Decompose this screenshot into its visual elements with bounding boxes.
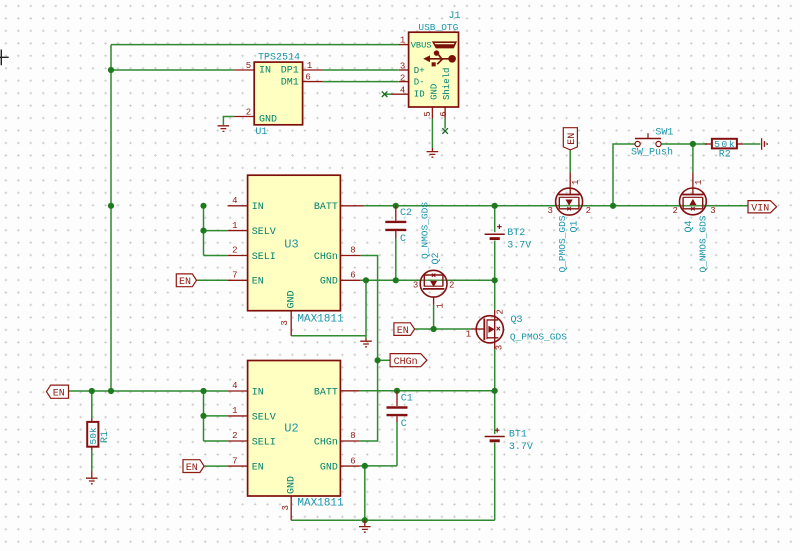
svg-text:2: 2 xyxy=(673,206,678,216)
svg-text:7: 7 xyxy=(232,456,237,466)
svg-text:1: 1 xyxy=(232,406,237,416)
junction SW branch xyxy=(610,203,616,209)
wire U2 SELV/SELI branch xyxy=(204,391,228,441)
wire chord through Q2 xyxy=(420,279,446,281)
wire EN label to U3 pin7 xyxy=(197,279,228,281)
wire chord through Q1 xyxy=(556,205,583,207)
pin U2-8 CHGn xyxy=(340,440,359,442)
IC U3 MAX1811 body xyxy=(248,175,341,311)
wire USB Shield pin down xyxy=(444,119,446,129)
svg-text:D-: D- xyxy=(414,78,425,88)
svg-text:1: 1 xyxy=(694,180,704,185)
svg-text:Q_PMOS_GDS: Q_PMOS_GDS xyxy=(557,215,568,272)
junction C1 top xyxy=(394,388,400,394)
wire U3 GND row left xyxy=(360,279,420,281)
wire DM1 to D- xyxy=(323,81,399,83)
ground below U1 xyxy=(218,126,230,132)
wire left EN row xyxy=(69,390,228,392)
junction Q4 gate / R2 xyxy=(690,141,696,147)
pin U3-8 CHGn xyxy=(340,255,360,257)
pin C1 bottom xyxy=(396,416,398,422)
wire USB GND pin down xyxy=(431,119,433,149)
wire U3 pin3 to ground branch xyxy=(291,335,366,337)
global label CHGn xyxy=(390,354,427,367)
svg-text:GND: GND xyxy=(320,277,338,288)
pin J1-5 GND xyxy=(431,107,433,119)
svg-text:8: 8 xyxy=(350,431,355,441)
pin R1 top xyxy=(91,419,93,422)
pin R2 right xyxy=(737,143,743,145)
global label EN (flag above Q1, vertical) xyxy=(563,128,577,150)
svg-text:CHGn: CHGn xyxy=(314,437,338,448)
junction BT2 top xyxy=(492,203,498,209)
wire BT2 top xyxy=(494,206,496,232)
svg-text:VBUS: VBUS xyxy=(411,41,432,51)
junction BT1 top / Q3 drain xyxy=(492,388,498,394)
pin U2-2 SELI xyxy=(228,440,248,442)
svg-text:SELI: SELI xyxy=(252,437,276,448)
svg-text:EN: EN xyxy=(186,463,198,474)
junction C1 bottom branch xyxy=(362,463,368,469)
junction C2 bottom xyxy=(393,277,399,283)
pin U3-2 SELI xyxy=(228,255,248,257)
svg-text:C2: C2 xyxy=(400,208,412,219)
svg-text:DP1: DP1 xyxy=(281,66,299,77)
svg-text:D+: D+ xyxy=(414,66,425,76)
junction U2 SELV row xyxy=(200,413,206,419)
pin U3-7 EN xyxy=(228,279,248,281)
pin Q4 gate xyxy=(692,173,694,195)
pin Q2 gate xyxy=(433,297,435,305)
svg-text:8: 8 xyxy=(350,246,355,256)
wire Q4 gate from SW node xyxy=(692,144,694,173)
battery BT2 xyxy=(485,224,505,238)
pin U1-6 DM1 xyxy=(303,81,323,83)
pin Q1 gate xyxy=(569,173,571,195)
svg-text:Q2: Q2 xyxy=(431,252,442,264)
resistor R2 xyxy=(712,139,737,149)
pin R1 bottom xyxy=(91,447,93,450)
svg-text:1: 1 xyxy=(571,180,581,185)
svg-text:EN: EN xyxy=(567,133,578,145)
svg-text:3: 3 xyxy=(495,345,505,350)
transistor Q2 Q_NMOS_GDS xyxy=(420,270,447,297)
resistor R1 xyxy=(87,422,98,447)
svg-text:2: 2 xyxy=(495,309,505,314)
svg-text:1: 1 xyxy=(307,61,312,71)
transistor Q1 Q_PMOS_GDS xyxy=(556,188,583,215)
wire U2 BATT rail xyxy=(359,390,494,392)
pin U2-6 GND xyxy=(340,465,359,467)
svg-text:BT1: BT1 xyxy=(509,430,527,441)
svg-text:SELV: SELV xyxy=(252,412,276,423)
svg-text:C: C xyxy=(400,234,406,245)
svg-text:VIN: VIN xyxy=(751,203,769,214)
svg-text:GND: GND xyxy=(287,476,298,494)
wire bottom GND rail xyxy=(291,519,495,521)
svg-text:Q3: Q3 xyxy=(511,315,523,326)
pin U3-4 IN xyxy=(228,205,248,207)
svg-text:ID: ID xyxy=(414,90,425,100)
pin Q3 drain bottom xyxy=(494,338,496,349)
global label EN (Q2/Q3 gate row) xyxy=(394,323,415,336)
svg-text:3: 3 xyxy=(548,206,553,216)
junction at U1 IN row xyxy=(108,67,114,73)
svg-text:3: 3 xyxy=(710,206,715,216)
svg-text:3: 3 xyxy=(400,62,405,72)
pin U1-2 GND xyxy=(234,116,254,118)
svg-text:GND: GND xyxy=(287,290,298,308)
svg-text:BT2: BT2 xyxy=(507,228,525,239)
svg-text:2: 2 xyxy=(449,281,454,291)
wire DP1 to D+ xyxy=(323,69,399,71)
svg-text:EN: EN xyxy=(252,463,264,474)
junction C2 top xyxy=(393,203,399,209)
svg-text:Q1: Q1 xyxy=(570,220,581,232)
capacitor C1 xyxy=(387,408,408,416)
junction left EN row main xyxy=(108,388,114,394)
svg-text:5: 5 xyxy=(423,111,433,116)
wire Q2 right to BT2 node xyxy=(447,279,495,281)
svg-text:EN: EN xyxy=(397,326,409,337)
pin J1-4 ID xyxy=(391,93,409,95)
wire Q1 to Q4 xyxy=(583,205,680,207)
svg-text:2: 2 xyxy=(246,107,251,117)
wire SW1 to R2 xyxy=(661,143,707,145)
ground below R1 xyxy=(86,471,98,484)
wire BT2 bottom xyxy=(494,241,496,281)
wire C2 bottom xyxy=(395,238,397,280)
svg-text:1: 1 xyxy=(232,221,237,231)
junction at U3 IN row xyxy=(108,203,114,209)
svg-text:SELV: SELV xyxy=(252,227,276,238)
wire BT1 top xyxy=(494,391,496,434)
wire left vertical main xyxy=(110,45,112,391)
svg-text:6: 6 xyxy=(439,111,449,116)
global label VIN xyxy=(748,201,777,213)
wire chord through Q4 xyxy=(680,205,706,207)
pin U2-1 SELV xyxy=(228,415,248,417)
junction U3 gnd branch xyxy=(363,277,369,283)
pin J1-2 D- xyxy=(399,81,409,83)
global label EN (U2 pin7) xyxy=(183,460,204,473)
svg-text:R1: R1 xyxy=(100,431,111,443)
wire U1 GND to ground xyxy=(223,117,234,126)
ground below U3 xyxy=(360,339,372,347)
wire BT1 bottom xyxy=(494,443,496,521)
svg-text:SW_Push: SW_Push xyxy=(631,147,673,159)
svg-text:3.7V: 3.7V xyxy=(509,442,533,453)
pin U1-5 IN xyxy=(234,69,254,71)
switch SW1 xyxy=(635,133,661,146)
ground right of R2 (rotated) xyxy=(762,138,768,150)
wire R1 bottom to ground xyxy=(91,450,93,471)
svg-text:Q_PMOS_GDS: Q_PMOS_GDS xyxy=(510,331,567,342)
wire Q4 to VIN xyxy=(706,205,748,207)
svg-text:3: 3 xyxy=(413,281,418,291)
junction Q2 gate / EN row xyxy=(431,326,437,332)
svg-text:DM1: DM1 xyxy=(281,77,299,88)
junction BT2 bottom / Q3 xyxy=(492,277,498,283)
svg-text:U2: U2 xyxy=(284,422,298,436)
pin J1-1 VBUS xyxy=(399,44,409,46)
svg-text:J1: J1 xyxy=(449,11,461,22)
svg-text:2: 2 xyxy=(400,73,405,83)
junction U3 SELV branch top xyxy=(200,203,206,209)
svg-text:3: 3 xyxy=(281,505,291,510)
global label EN (far left) xyxy=(47,385,69,398)
battery BT1 xyxy=(485,428,505,441)
wire CHGn net from U3 pin8 xyxy=(359,256,377,442)
svg-text:BATT: BATT xyxy=(314,202,338,213)
pin U2-7 EN xyxy=(228,465,248,467)
svg-text:3.7V: 3.7V xyxy=(507,241,531,252)
svg-text:5: 5 xyxy=(246,61,251,71)
svg-text:CHGn: CHGn xyxy=(394,357,418,368)
svg-text:4: 4 xyxy=(400,86,405,96)
svg-text:EN: EN xyxy=(252,277,264,288)
wire C1 bottom xyxy=(396,422,398,466)
junction bottom rail gnd xyxy=(362,517,368,523)
pin U1-1 DP1 xyxy=(303,69,323,71)
ground below U2 xyxy=(359,520,371,532)
svg-text:BATT: BATT xyxy=(314,387,338,398)
svg-text:IN: IN xyxy=(259,66,271,77)
svg-text:4: 4 xyxy=(232,196,237,206)
pin U3-3 GND bottom xyxy=(290,311,292,336)
wire Q3 drain down to U2 BATT rail xyxy=(494,349,496,391)
global label EN (U3 pin7) xyxy=(176,274,196,287)
IC U2 MAX1811 body xyxy=(248,361,341,497)
svg-text:50k: 50k xyxy=(88,427,99,444)
wire Q2 gate down xyxy=(433,305,435,330)
transistor Q3 Q_PMOS_GDS xyxy=(476,316,503,343)
junction R1 xyxy=(89,388,95,394)
svg-text:1: 1 xyxy=(466,330,471,340)
pin J1-6 Shield xyxy=(444,107,446,119)
svg-text:U1: U1 xyxy=(255,127,267,138)
wire ID stub to no-connect xyxy=(386,93,392,95)
wire U2 ground branch xyxy=(364,466,366,520)
wire U3 ground branch xyxy=(365,280,367,338)
pin U2-3 GND bottom xyxy=(290,496,292,520)
svg-text:2: 2 xyxy=(232,246,237,256)
USB trident icon xyxy=(423,51,455,66)
wire EN flag to Q1 gate xyxy=(569,150,571,173)
svg-text:USB_OTG: USB_OTG xyxy=(418,22,458,33)
wire R2 to ground right xyxy=(743,143,760,145)
svg-text:EN: EN xyxy=(53,388,65,399)
svg-text:6: 6 xyxy=(350,456,355,466)
svg-text:GND: GND xyxy=(320,463,338,474)
svg-text:SELI: SELI xyxy=(252,252,276,263)
wire branch up to SW1 xyxy=(613,144,635,206)
junction U2 SELV branch top xyxy=(200,388,206,394)
no-connect X on J1 ID pin xyxy=(382,91,388,97)
pin R2 left xyxy=(705,143,712,145)
svg-text:7: 7 xyxy=(232,271,237,281)
wire BATT rail U3 to Q1 xyxy=(363,205,556,207)
USB connector icon (trapezoid) xyxy=(432,41,457,48)
transistor Q4 Q_NMOS_GDS xyxy=(680,188,707,215)
connector J1 USB_OTG body xyxy=(409,32,459,107)
junction CHGn label xyxy=(375,357,381,363)
svg-text:3: 3 xyxy=(280,320,290,325)
wire U3 SELV/SELI branch xyxy=(204,206,228,256)
sheet origin cross marker xyxy=(0,50,9,66)
svg-text:C: C xyxy=(401,419,407,430)
svg-text:2: 2 xyxy=(232,431,237,441)
pin J1-3 D+ xyxy=(399,69,409,71)
svg-text:Shield: Shield xyxy=(442,68,452,100)
capacitor C2 xyxy=(385,222,406,230)
junction U3 SELV row xyxy=(200,228,206,234)
svg-text:GND: GND xyxy=(259,114,277,125)
svg-text:U3: U3 xyxy=(284,237,298,251)
pin U2-4 IN xyxy=(228,390,248,392)
wire EN label to U2 pin7 xyxy=(204,465,228,467)
svg-text:GND: GND xyxy=(429,84,439,100)
IC U1 TPS2514 body xyxy=(254,62,302,125)
ground below J1 xyxy=(427,148,439,157)
svg-text:Q4: Q4 xyxy=(684,220,695,232)
pin U3-1 SELV xyxy=(228,230,248,232)
svg-text:TPS2514: TPS2514 xyxy=(258,52,300,63)
pin C2 top xyxy=(395,206,397,221)
svg-text:CHGn: CHGn xyxy=(314,252,338,263)
svg-text:EN: EN xyxy=(179,277,191,288)
svg-text:4: 4 xyxy=(232,381,237,391)
svg-text:6: 6 xyxy=(305,72,310,82)
svg-text:50k: 50k xyxy=(714,139,735,150)
svg-text:MAX1811: MAX1811 xyxy=(297,498,344,510)
svg-text:Q_NMOS_GDS: Q_NMOS_GDS xyxy=(419,202,430,259)
wire VBUS top rail xyxy=(111,44,399,46)
wire R1 top xyxy=(91,391,93,419)
pin U3-BATT xyxy=(340,205,363,207)
svg-text:SW1: SW1 xyxy=(655,128,673,139)
no-connect X on J1 Shield pin xyxy=(442,128,448,134)
pin C2 bottom xyxy=(395,231,397,238)
svg-text:R2: R2 xyxy=(719,150,731,161)
svg-text:2: 2 xyxy=(586,206,591,216)
wire Q3 source up xyxy=(494,280,496,310)
svg-text:1: 1 xyxy=(436,303,446,308)
wire to U1 IN xyxy=(111,69,234,71)
pin C1 top xyxy=(396,391,398,406)
svg-text:1: 1 xyxy=(400,36,405,46)
svg-text:C1: C1 xyxy=(401,393,413,404)
wire CHGn label stub xyxy=(378,359,391,361)
pin U3-6 GND xyxy=(340,279,360,281)
wire U2 GND row xyxy=(359,465,397,467)
pin Q3 source top xyxy=(494,310,496,320)
pin Q3 gate xyxy=(471,328,484,330)
pin U2-BATT xyxy=(340,390,359,392)
svg-text:MAX1811: MAX1811 xyxy=(297,313,344,325)
svg-text:IN: IN xyxy=(252,387,264,398)
svg-text:IN: IN xyxy=(252,202,264,213)
svg-text:Q_NMOS_GDS: Q_NMOS_GDS xyxy=(698,215,709,272)
svg-text:6: 6 xyxy=(350,271,355,281)
wire EN label to Q2/Q3 gates xyxy=(415,328,471,330)
